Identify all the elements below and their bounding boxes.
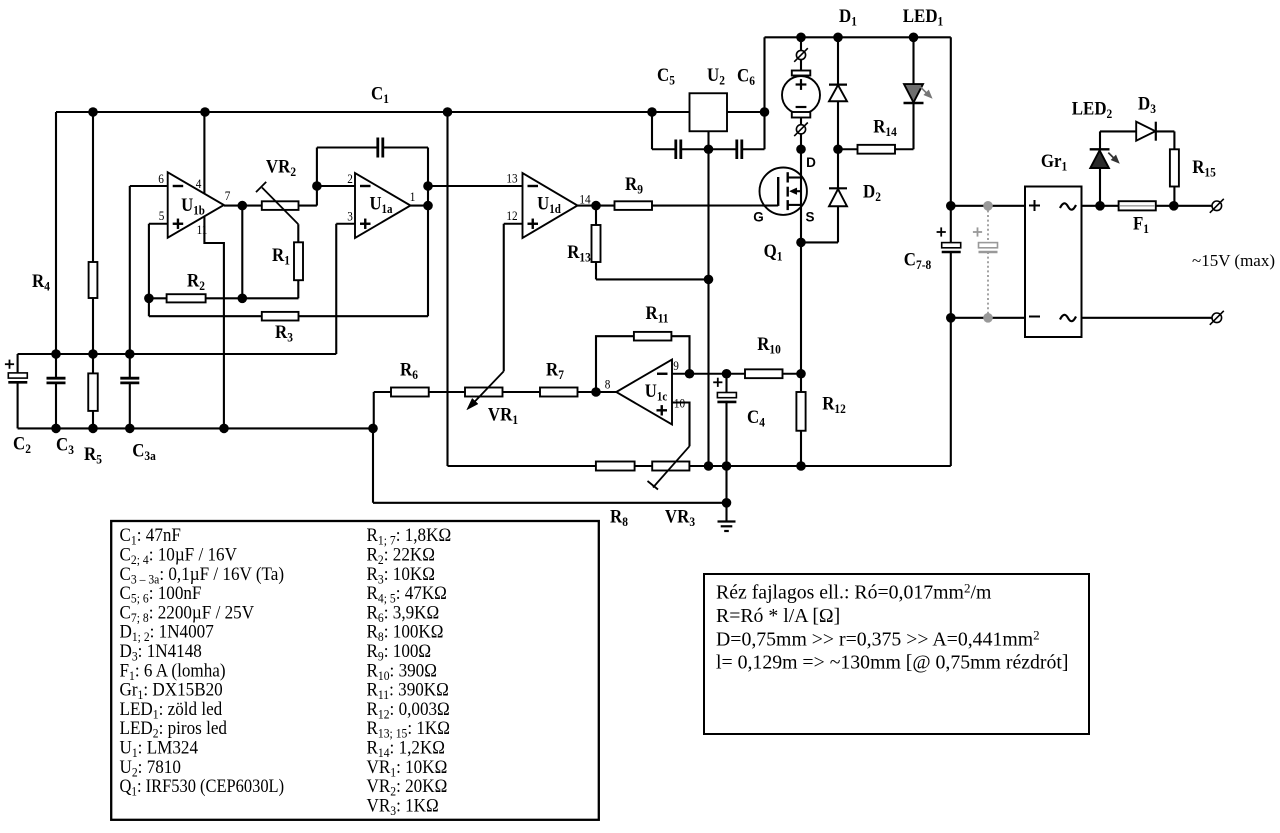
svg-text:3: 3: [347, 209, 353, 224]
svg-text:5: 5: [159, 208, 165, 223]
svg-text:D2: D2: [863, 181, 881, 205]
svg-text:R8: R8: [610, 506, 628, 530]
svg-text:C2: C2: [13, 433, 31, 457]
svg-text:6: 6: [158, 171, 164, 186]
svg-text:R11: R11: [645, 302, 668, 326]
svg-text:VR3: VR3: [665, 506, 695, 530]
svg-text:C4: C4: [747, 406, 765, 430]
svg-text:8: 8: [605, 377, 611, 392]
svg-text:R4: R4: [32, 270, 50, 294]
svg-text:U2: U2: [707, 64, 725, 88]
svg-text:10: 10: [674, 396, 685, 411]
svg-text:LED2: LED2: [1072, 98, 1112, 122]
svg-text:R14: R14: [873, 116, 897, 140]
svg-text:R3: R3: [275, 321, 293, 345]
svg-text:VR1: VR1: [488, 404, 518, 428]
svg-text:12: 12: [506, 208, 517, 223]
svg-text:1: 1: [410, 189, 416, 204]
svg-text:R2: R2: [187, 270, 205, 294]
svg-text:C5: C5: [657, 64, 675, 88]
svg-text:C3a: C3a: [132, 440, 156, 464]
svg-text:~15V (max): ~15V (max): [1192, 251, 1275, 270]
svg-text:Q1: Q1: [764, 240, 783, 264]
svg-text:14: 14: [579, 192, 590, 207]
svg-text:R12: R12: [822, 393, 846, 417]
svg-text:l= 0,129m => ~130mm [@ 0,75mm: l= 0,129m => ~130mm [@ 0,75mm rézdrót]: [716, 652, 1068, 674]
svg-text:R7: R7: [546, 359, 564, 383]
svg-text:9: 9: [673, 358, 679, 373]
svg-text:C7-8: C7-8: [904, 249, 931, 273]
svg-text:Réz fajlagos ell.: Ró=0,017mm2: Réz fajlagos ell.: Ró=0,017mm2​/m: [716, 581, 992, 604]
svg-text:C3: C3: [56, 434, 74, 458]
svg-text:D3: D3: [1138, 93, 1156, 117]
svg-text:R5: R5: [84, 443, 102, 467]
svg-text:D=0,75mm >> r=0,375 >> A=0,441: D=0,75mm >> r=0,375 >> A=0,441mm2​: [716, 627, 1040, 650]
svg-text:D: D: [806, 155, 816, 170]
svg-text:R13: R13: [567, 241, 591, 265]
svg-text:VR2: VR2: [266, 156, 296, 180]
svg-text:LED1: LED1: [903, 5, 943, 29]
svg-text:F1: F1: [1133, 213, 1149, 237]
svg-text:R9: R9: [625, 173, 643, 197]
svg-text:Q1​: IRF530 (CEP6030L): Q1​: IRF530 (CEP6030L): [120, 775, 285, 799]
svg-text:R15: R15: [1192, 156, 1216, 180]
svg-text:R=Ró * l/A [Ω]: R=Ró * l/A [Ω]: [716, 605, 840, 627]
svg-text:R10: R10: [757, 333, 781, 357]
svg-text:2: 2: [347, 171, 353, 186]
svg-text:13: 13: [506, 171, 517, 186]
svg-text:G: G: [753, 210, 764, 225]
svg-text:11: 11: [197, 222, 208, 237]
svg-text:Gr1: Gr1: [1041, 150, 1067, 174]
svg-text:S: S: [805, 210, 814, 225]
svg-text:R1: R1: [272, 244, 290, 268]
svg-text:VR3​: 1KΩ: VR3​: 1KΩ: [367, 795, 439, 818]
svg-text:D1: D1: [839, 5, 857, 29]
svg-text:C1: C1: [371, 83, 389, 107]
svg-text:4: 4: [196, 176, 202, 191]
svg-text:R6: R6: [400, 359, 418, 383]
svg-text:C6: C6: [737, 65, 755, 89]
svg-text:7: 7: [225, 188, 231, 203]
